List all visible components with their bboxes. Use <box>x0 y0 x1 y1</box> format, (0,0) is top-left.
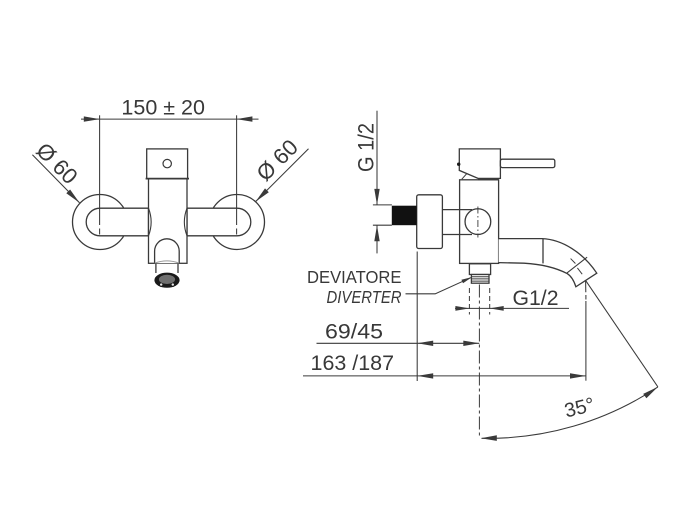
svg-text:163 /187: 163 /187 <box>311 351 395 375</box>
svg-text:35°: 35° <box>562 394 597 423</box>
svg-text:Ø 60: Ø 60 <box>31 138 82 189</box>
svg-text:69/45: 69/45 <box>325 319 383 343</box>
svg-text:150 ± 20: 150 ± 20 <box>121 95 205 119</box>
svg-text:Ø 60: Ø 60 <box>251 134 302 185</box>
svg-text:G 1/2: G 1/2 <box>353 123 378 172</box>
svg-text:DIVERTER: DIVERTER <box>327 287 402 307</box>
svg-text:DEVIATORE: DEVIATORE <box>307 267 402 287</box>
svg-text:G1/2: G1/2 <box>513 286 559 310</box>
